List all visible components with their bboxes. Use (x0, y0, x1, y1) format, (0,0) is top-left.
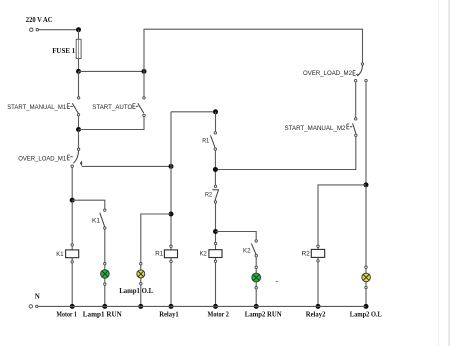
junction node at riser (142, 69, 147, 74)
wire R1 contact to junction (214, 150, 216, 185)
wire fuse top lead (78, 30, 80, 40)
node N terminal (29, 305, 38, 308)
junction motor2 column top (213, 109, 218, 114)
wire overload M1 down motor1 column (71, 167, 73, 200)
pushbutton START_MANUAL_M2 (347, 118, 357, 137)
svg-text:Relay1: Relay1 (159, 310, 179, 318)
contact R1 (211, 132, 217, 151)
svg-text:N: N (35, 293, 40, 301)
junction below fuse (76, 69, 81, 74)
junction above fuse (76, 27, 81, 32)
wire tap to K1 contact (72, 200, 105, 209)
junction motor2 rail (213, 304, 218, 309)
wire fuse junction to right riser (79, 70, 145, 72)
svg-text:START_MANUAL_M1: START_MANUAL_M1 (7, 104, 66, 111)
coil K2 (209, 242, 222, 262)
svg-text:Motor 2: Motor 2 (208, 310, 230, 318)
wire lamp2OL column (365, 186, 367, 306)
wire tap arrow after overload M1 (80, 161, 82, 165)
pushbutton START_AUTO (133, 97, 145, 117)
junction lamp2run rail (254, 304, 259, 309)
junction lamp1run rail (102, 304, 107, 309)
wire below START_MANUAL_M1 (78, 116, 80, 130)
svg-text:Motor 1: Motor 1 (56, 310, 77, 318)
wire R2 contact down (215, 203, 217, 306)
svg-text:Lamp2 O.L: Lamp2 O.L (350, 310, 382, 318)
node L1 terminal 220VAC (30, 28, 39, 31)
svg-text:Relay2: Relay2 (306, 310, 326, 318)
stray dash mark (276, 281, 279, 283)
wire fuse bottom lead (78, 59, 80, 72)
fuse FUSE1 (76, 39, 81, 58)
wire start manual M2 down and left to motor2 column (215, 137, 355, 170)
lamp Lamp1 O.L (137, 263, 145, 285)
coil R2 (311, 245, 324, 262)
contact K1 (100, 209, 106, 229)
pushbutton START_MANUAL_M1 (67, 97, 80, 116)
svg-text:K1: K1 (92, 217, 100, 224)
svg-text:R1: R1 (202, 138, 209, 145)
overload contact OVER_LOAD_M1 (67, 148, 80, 167)
svg-text:K2: K2 (200, 251, 208, 258)
svg-text:K2: K2 (243, 248, 251, 255)
wire motor1 column to K1 coil (71, 201, 73, 306)
junction lamp2OL node (364, 182, 369, 187)
wire to relay2 column (318, 185, 366, 307)
junction motor1 column tap (70, 198, 75, 203)
junction lamp1OL rail (138, 304, 143, 309)
window border edge (438, 0, 440, 346)
junction motor2 K2 tap (213, 229, 218, 234)
wire overload M1 to relay1 column (82, 165, 171, 167)
junction relay1 lamp tap (169, 212, 174, 217)
coil R1 (164, 245, 177, 263)
wire overload M2 right branch down (365, 82, 367, 185)
svg-text:FUSE 1: FUSE 1 (52, 47, 75, 55)
junction motor2 mid (213, 167, 218, 172)
wire junction to overload M1 (78, 131, 80, 148)
svg-text:220 V AC: 220 V AC (26, 16, 53, 24)
svg-text:R1: R1 (155, 251, 163, 258)
svg-text:START_AUTO: START_AUTO (92, 104, 132, 111)
contact K2 (251, 240, 257, 257)
junction relay1 column mid (169, 164, 174, 169)
wire overload M2 to start manual M2 (355, 82, 357, 118)
wire left column to START_MANUAL_M1 (78, 71, 80, 96)
wire START_AUTO top to rail junction (143, 71, 145, 96)
overload contact OVER_LOAD_M2 (353, 63, 367, 82)
junction below START_MANUAL_M1 (76, 127, 81, 132)
wire relay1 column top run to motor2 column (171, 111, 216, 113)
wire from 220VAC terminal to fuse top (39, 29, 79, 31)
coil K1 (66, 244, 79, 263)
svg-text:Lamp1 O.L: Lamp1 O.L (119, 287, 153, 295)
wire junction to START_AUTO branch (79, 117, 145, 130)
wire bottom rail N (39, 305, 367, 307)
svg-text:R2: R2 (302, 250, 311, 257)
lamp Lamp2 RUN (252, 266, 261, 289)
junction lamp2OL rail (rail end) (364, 304, 369, 309)
svg-text:K1: K1 (56, 251, 64, 258)
junction relay2 rail (316, 304, 321, 309)
wire tap to lamp1 OL column (141, 214, 171, 306)
wire top rail riser and run to overload M2 (144, 29, 363, 71)
svg-text:OVER_LOAD_M2: OVER_LOAD_M2 (303, 70, 352, 77)
svg-text:START_MANUAL_M2: START_MANUAL_M2 (285, 125, 346, 132)
svg-text:Lamp2 RUN: Lamp2 RUN (245, 310, 282, 318)
wire K1 contact to lamp1 run (104, 229, 106, 306)
wire relay1 column vertical (170, 112, 172, 307)
svg-text:OVER_LOAD_M1: OVER_LOAD_M1 (18, 155, 66, 162)
contact R2 (NC) (212, 185, 218, 203)
junction relay1 rail (169, 304, 174, 309)
svg-text:Lamp1 RUN: Lamp1 RUN (83, 310, 122, 318)
lamp Lamp1 RUN (101, 263, 110, 286)
svg-text:R2: R2 (205, 191, 212, 198)
wire motor2 column upper (215, 112, 217, 132)
lamp Lamp2 O.L (362, 266, 371, 289)
wire tap to K2 contact (216, 232, 257, 240)
junction motor1 rail (70, 304, 75, 309)
wire K2 contact to lamp2 run (255, 257, 257, 307)
